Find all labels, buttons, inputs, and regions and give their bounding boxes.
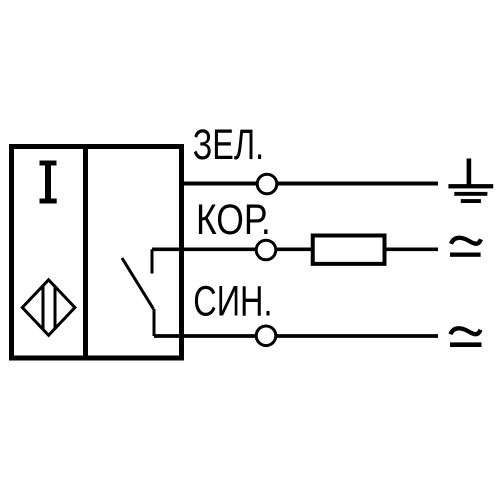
sensor body (outer box): [12, 147, 182, 359]
ground: [448, 159, 493, 204]
divider line: [83, 147, 88, 359]
terminal circle СИН: [256, 326, 276, 346]
svg-text:СИН.: СИН.: [193, 279, 272, 326]
wire ЗЕЛ (green output): [181, 182, 438, 186]
wire КОР (brown supply): [152, 248, 438, 252]
label I (sensing element): [40, 161, 57, 204]
AC symbol (≃) at КОР: [450, 238, 481, 257]
AC symbol (≃) at СИН: [450, 328, 482, 347]
sensor symbol (diamond with two bars): [22, 280, 75, 336]
wire СИН (blue supply): [154, 334, 438, 338]
svg-text:ЗЕЛ.: ЗЕЛ.: [193, 122, 264, 169]
resistor (load): [313, 236, 385, 264]
switch contact (NO): [122, 249, 154, 336]
svg-text:КОР.: КОР.: [196, 197, 271, 244]
terminal circle ЗЕЛ: [257, 174, 277, 194]
terminal circle КОР: [256, 240, 276, 260]
